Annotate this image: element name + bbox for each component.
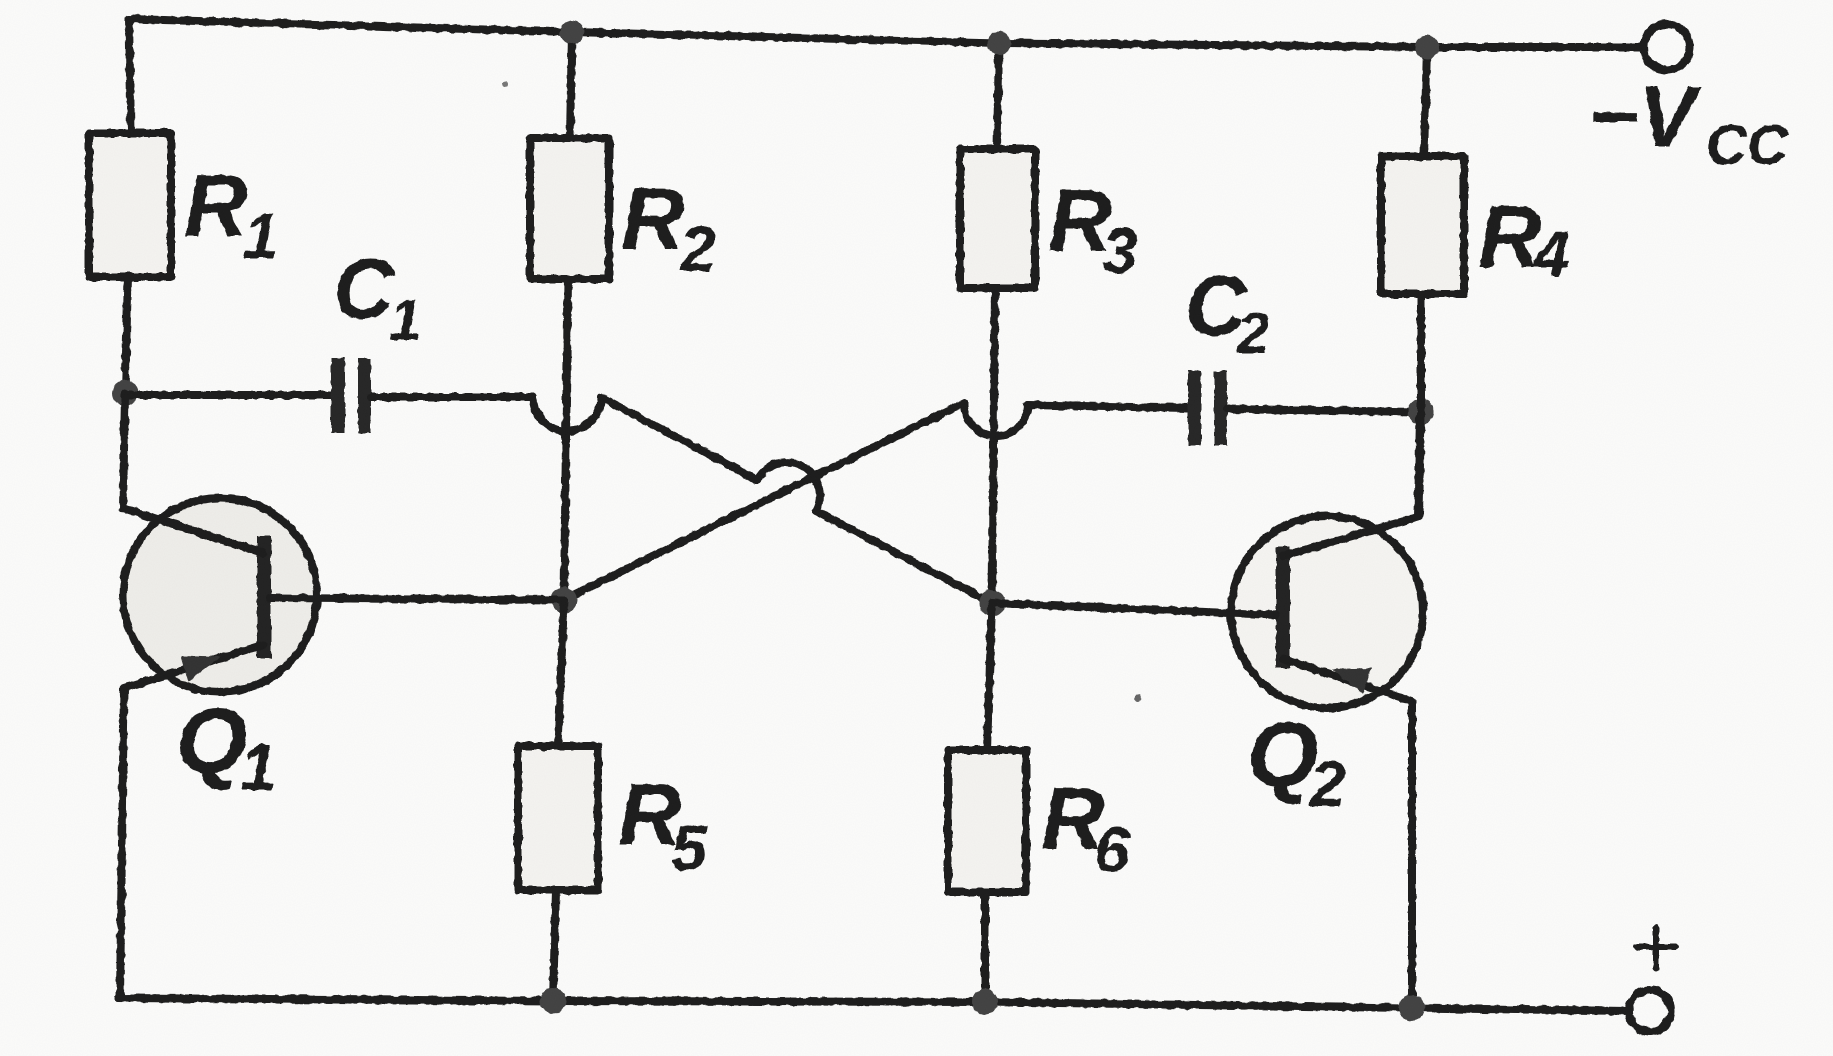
wire rail to R2 [570, 32, 572, 138]
wire rail to R4 [1424, 47, 1427, 156]
wire cross-coupling C1 to Q2 base (diagonal with hop) [601, 397, 992, 603]
svg-text:1: 1 [240, 730, 277, 804]
wire R4 bottom to node [1417, 294, 1425, 412]
svg-text:2: 2 [1309, 748, 1346, 820]
wire node A to C1 [125, 391, 332, 399]
wire C2 right to node [1227, 409, 1421, 412]
node rail-R2 [560, 20, 584, 44]
wire node B1 to R5 [558, 600, 564, 746]
node rail-R5 [540, 988, 566, 1014]
capacitor C1 [331, 242, 421, 433]
resistor R1 [89, 133, 279, 277]
resistor R6 [948, 750, 1130, 892]
wire bottom return rail [118, 998, 1629, 1011]
wire node down to Q2 collector [1419, 412, 1421, 516]
resistor R4 [1381, 156, 1570, 294]
transistor Q1 [120, 393, 564, 998]
resistor R3 [960, 149, 1138, 288]
svg-text:CC: CC [1706, 113, 1789, 177]
wire C1 right to hop [371, 393, 533, 401]
resistor R2 [530, 138, 716, 285]
svg-text:1: 1 [243, 200, 279, 272]
wire hop over R2 branch [533, 397, 601, 431]
wire R1 bottom to node A [125, 277, 128, 393]
wire hop to C2 [1028, 405, 1189, 408]
svg-text:1: 1 [389, 288, 421, 353]
svg-text:Q: Q [1247, 704, 1319, 806]
node rail-R4 [1415, 35, 1439, 59]
svg-text:R: R [1478, 187, 1542, 286]
svg-text:2: 2 [679, 213, 716, 285]
svg-text:C: C [333, 242, 396, 337]
wire R2 bottom to node B1 [564, 279, 568, 600]
terminal -Vcc [1588, 24, 1789, 177]
transistor Q2 [992, 414, 1423, 1008]
node B1 (Q1 base junction) [551, 587, 577, 613]
node rail-R3 [987, 31, 1011, 55]
svg-text:2: 2 [1236, 301, 1269, 366]
svg-text:6: 6 [1094, 814, 1130, 886]
wire hop over R3 branch [964, 403, 1028, 436]
svg-text:Q: Q [176, 690, 248, 792]
node rail-R6 [972, 989, 998, 1015]
speck [1135, 695, 1142, 702]
node A (Q1 collector junction) [112, 380, 138, 406]
wire R6 bottom to rail [981, 892, 989, 1002]
wire node B2 to R6 [987, 603, 992, 750]
svg-text:3: 3 [1102, 215, 1138, 287]
resistor R5 [518, 746, 708, 890]
speck [502, 81, 508, 87]
wire left drop from rail to R1 [129, 19, 131, 133]
wire R3 bottom to node B2 [992, 288, 995, 603]
svg-text:R: R [621, 169, 685, 268]
node Q2 collector junction [1408, 399, 1434, 425]
wire rail to R3 [997, 43, 999, 149]
wire cross-coupling C2 to Q1 base (diagonal) [561, 403, 964, 601]
capacitor C2 [1185, 259, 1269, 446]
terminal + [1629, 927, 1676, 1032]
svg-text:R: R [184, 156, 248, 255]
node B2 (Q2 base junction) [979, 590, 1005, 616]
wire top supply rail [129, 19, 1643, 47]
node rail-Q2 emitter [1399, 995, 1425, 1021]
svg-text:4: 4 [1532, 218, 1570, 290]
svg-text:−V: −V [1588, 69, 1702, 165]
svg-text:5: 5 [671, 812, 708, 884]
wire R5 bottom to rail [553, 890, 556, 1001]
